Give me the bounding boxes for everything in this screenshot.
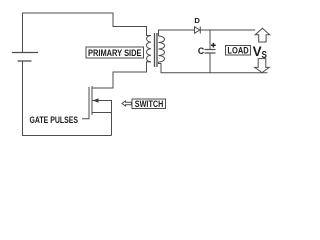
svg-text:GATE PULSES: GATE PULSES — [30, 115, 79, 126]
voltage down arrow — [255, 59, 270, 73]
mosfet Q1 body line to bottom rail — [93, 101, 112, 136]
capacitor C top plate — [205, 49, 216, 51]
load box — [226, 46, 251, 56]
svg-text:PRIMARY SIDE: PRIMARY SIDE — [88, 48, 142, 58]
transformer T1 core — [155, 33, 158, 67]
diode D cathode bar — [199, 27, 201, 34]
wire secondary top to diode anode — [159, 30, 195, 36]
wire primary bottom to mosfet drain — [92, 62, 151, 88]
battery B positive plate — [12, 52, 38, 54]
voltage up arrow — [255, 28, 270, 42]
transformer T1 secondary winding — [159, 36, 165, 62]
mosfet Q1 channel bar — [91, 86, 93, 115]
transformer T1 primary winding — [147, 36, 152, 62]
capacitor C bottom plate — [205, 52, 216, 54]
switch box — [132, 99, 166, 109]
mosfet Q1 source stub — [92, 112, 112, 114]
wire top rail from battery to primary — [23, 13, 152, 53]
capacitor plus sign — [211, 43, 216, 48]
wire capacitor bottom — [209, 53, 211, 73]
svg-text:SWITCH: SWITCH — [135, 98, 164, 109]
wire secondary bottom rail — [159, 62, 268, 73]
svg-text:LOAD: LOAD — [227, 46, 249, 56]
mosfet Q1 arrow — [93, 98, 99, 102]
svg-text:C: C — [198, 46, 205, 56]
svg-text:D: D — [194, 16, 200, 25]
svg-text:S: S — [262, 50, 268, 61]
svg-text:V: V — [253, 44, 262, 59]
wire battery negative to bottom rail — [23, 61, 112, 136]
primary side box — [86, 47, 144, 58]
wire diode to output top — [200, 29, 255, 31]
diode D triangle — [195, 27, 200, 33]
switch pointer arrow — [122, 101, 132, 106]
battery B negative plate — [18, 60, 32, 62]
mosfet Q1 gate bar and gate wire — [82, 87, 89, 119]
wire capacitor branch top — [209, 30, 211, 50]
